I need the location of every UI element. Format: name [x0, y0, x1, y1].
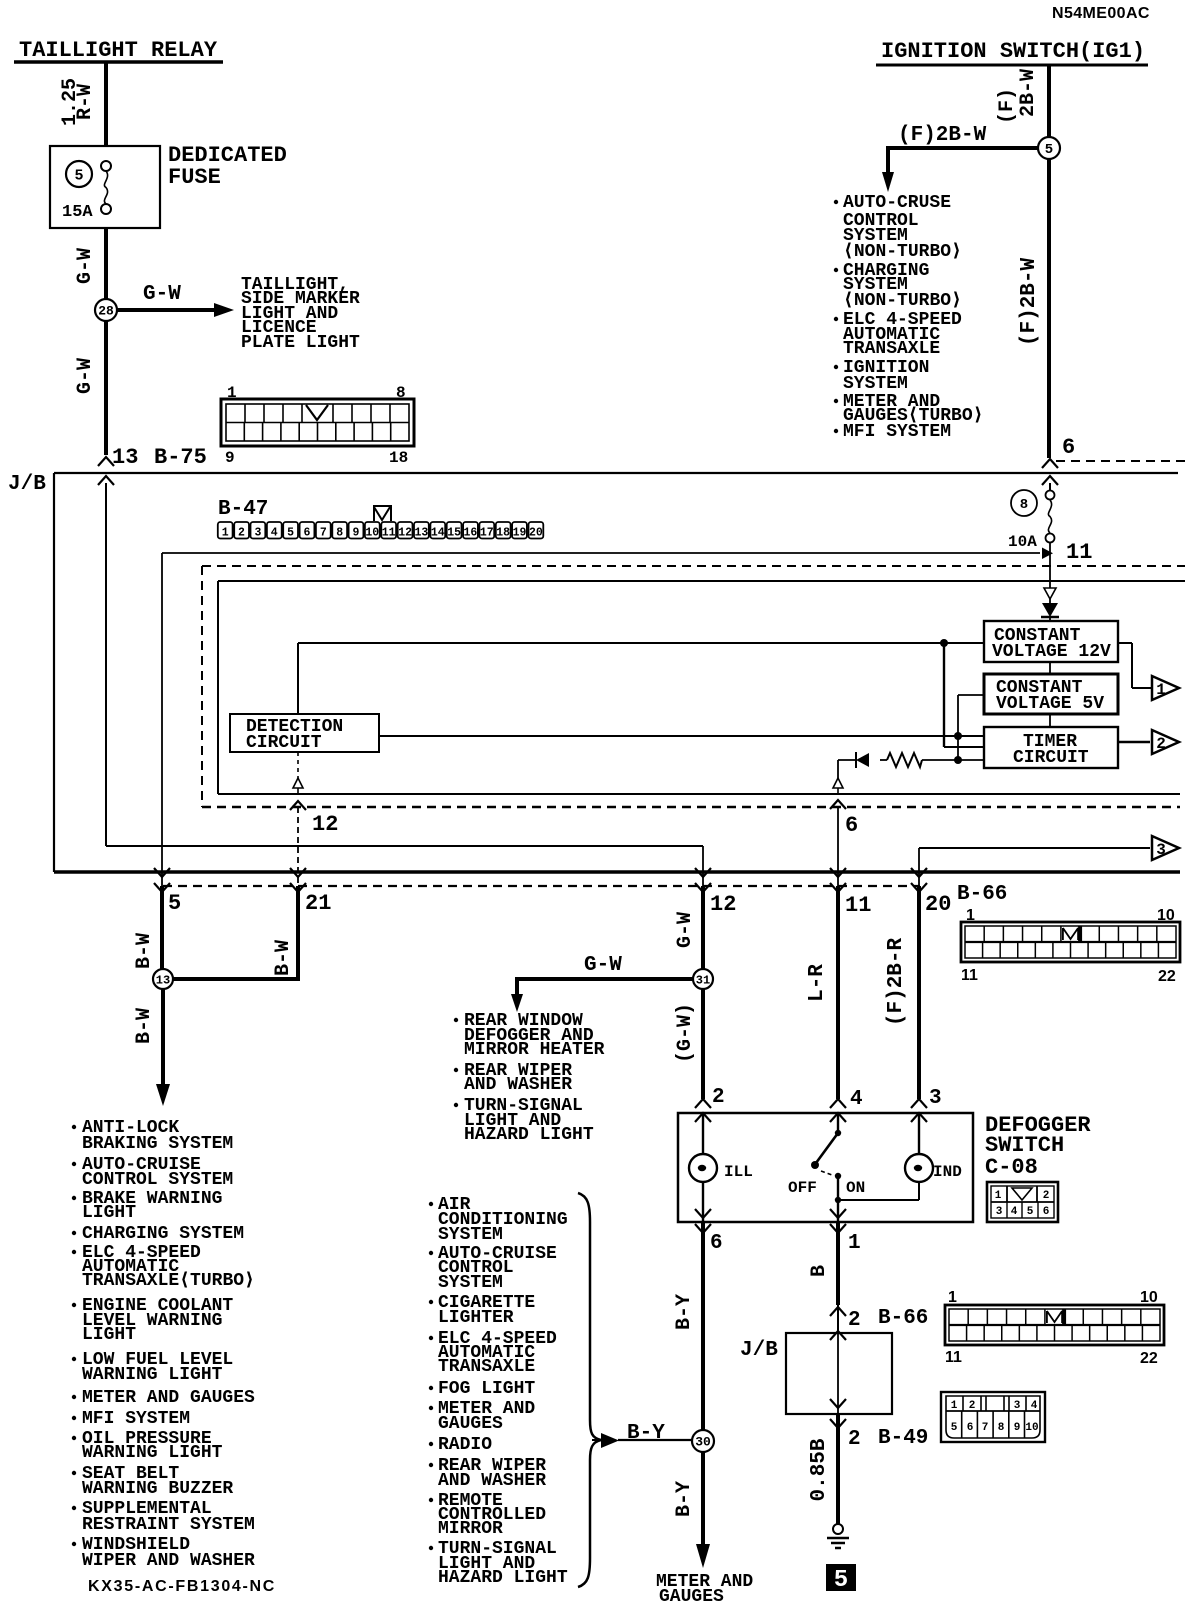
svg-text:12: 12: [312, 812, 338, 837]
svg-text:11: 11: [1066, 540, 1092, 565]
svg-text:15A: 15A: [62, 203, 93, 222]
svg-text:2: 2: [1043, 1190, 1050, 1202]
svg-text:G-W: G-W: [674, 912, 697, 948]
label 12 exit: [710, 892, 736, 917]
svg-text:CHARGING SYSTEM: CHARGING SYSTEM: [82, 1224, 244, 1244]
wire W2 into timer unit: [1049, 566, 1051, 588]
node 30: [692, 1430, 714, 1452]
node 28: [95, 299, 117, 321]
wire node30 down arrow: [696, 1452, 710, 1568]
label pin 4: [850, 1088, 863, 1111]
node 31: [693, 969, 713, 989]
label DEFOGGER SWITCH C-08: [985, 1113, 1091, 1180]
entry triangle marker: [1044, 588, 1056, 599]
exit triangle marker x298: [293, 778, 303, 788]
svg-text:METER AND GAUGES: METER AND GAUGES: [82, 1388, 255, 1408]
svg-text:11: 11: [382, 527, 396, 540]
svg-text:B-Y: B-Y: [627, 1422, 665, 1445]
svg-text:9: 9: [225, 449, 235, 467]
connector B-47 key symbol: [374, 506, 391, 521]
detection exit 12 drop: [297, 752, 299, 779]
svg-text:11: 11: [945, 1349, 962, 1366]
svg-text:TRANSAXLE: TRANSAXLE: [438, 1357, 535, 1377]
svg-text:B-66: B-66: [957, 883, 1007, 906]
svg-text:TRANSAXLE⟨TURBO⟩: TRANSAXLE⟨TURBO⟩: [82, 1271, 255, 1291]
arrow brace to node30: [592, 1433, 692, 1448]
dedicated fuse F5 box: [50, 143, 287, 228]
output arrow 3: [919, 836, 1179, 860]
connector B-47 label: [218, 498, 268, 521]
fuse 15A element: [62, 161, 111, 222]
svg-text:KX35-AC-FB1304-NC: KX35-AC-FB1304-NC: [88, 1578, 276, 1595]
label B: [808, 1265, 831, 1277]
svg-text:4: 4: [271, 527, 278, 540]
taillight load list: [241, 275, 360, 353]
svg-text:6: 6: [845, 813, 858, 838]
resistor R1: [887, 753, 984, 767]
connector B-66 upper grid: [961, 907, 1180, 985]
svg-text:3: 3: [254, 527, 261, 540]
svg-text:L-R: L-R: [806, 964, 829, 1002]
svg-text:VOLTAGE 12V: VOLTAGE 12V: [992, 642, 1111, 662]
svg-text:⟨NON-TURBO⟩: ⟨NON-TURBO⟩: [843, 291, 962, 311]
svg-text:GAUGES: GAUGES: [438, 1414, 503, 1434]
svg-text:2B-W: 2B-W: [1017, 69, 1040, 117]
svg-text:5: 5: [1045, 142, 1053, 158]
svg-text:CONTROL SYSTEM: CONTROL SYSTEM: [82, 1170, 233, 1190]
constant voltage 5V box: [984, 674, 1118, 714]
svg-text:17: 17: [480, 527, 494, 540]
svg-text:LIGHT: LIGHT: [82, 1325, 136, 1345]
wire W1 inside J/B to exit 12 corner: [106, 483, 703, 846]
svg-text:5: 5: [1027, 1206, 1034, 1218]
svg-text:9: 9: [353, 527, 360, 540]
chevrons out of J/B 2: [830, 1399, 846, 1428]
defogger bottom chevrons pin1: [830, 1209, 846, 1233]
svg-text:20: 20: [529, 527, 543, 540]
svg-text:CIRCUIT: CIRCUIT: [246, 733, 322, 753]
label J/B 2: [740, 1339, 778, 1362]
svg-text:(F)2B-W: (F)2B-W: [898, 124, 987, 147]
label B-Y lower: [673, 1481, 696, 1517]
svg-text:B-W: B-W: [272, 940, 295, 976]
svg-text:28: 28: [98, 304, 114, 319]
B-W load list: [72, 1118, 255, 1571]
defogger timer dashed enclosure: [202, 566, 1185, 807]
svg-text:SYSTEM: SYSTEM: [843, 374, 908, 394]
svg-text:5: 5: [168, 891, 181, 916]
svg-text:AND WASHER: AND WASHER: [438, 1471, 546, 1491]
exit chevron at dashed boundary x298: [290, 788, 306, 810]
label B-W below node13: [133, 1008, 156, 1044]
label G-W exit12: [674, 912, 697, 948]
svg-text:22: 22: [1158, 968, 1176, 985]
svg-text:SYSTEM: SYSTEM: [438, 1225, 503, 1245]
svg-text:MFI SYSTEM: MFI SYSTEM: [82, 1409, 190, 1429]
chevrons into J/B 2: [830, 1305, 846, 1340]
svg-text:ON: ON: [846, 1179, 865, 1197]
exit wire 11 vertical: [830, 807, 846, 1099]
svg-text:WARNING LIGHT: WARNING LIGHT: [82, 1365, 223, 1385]
svg-text:BRAKING SYSTEM: BRAKING SYSTEM: [82, 1134, 233, 1154]
svg-text:1: 1: [966, 907, 975, 924]
doc code N54ME00AC: [1052, 5, 1150, 22]
svg-text:B-49: B-49: [878, 1427, 928, 1450]
svg-text:2: 2: [238, 527, 245, 540]
svg-text:19: 19: [513, 527, 527, 540]
svg-text:B-Y: B-Y: [673, 1294, 696, 1330]
svg-text:ILL: ILL: [724, 1163, 753, 1181]
svg-text:8: 8: [336, 527, 343, 540]
svg-text:13: 13: [414, 527, 428, 540]
svg-text:6: 6: [967, 1422, 974, 1434]
label 12: [312, 812, 338, 837]
branch arrow G-W to taillight loads: [117, 283, 234, 317]
svg-text:10: 10: [1157, 907, 1175, 924]
label METER AND GAUGES: [656, 1572, 753, 1607]
svg-text:HAZARD LIGHT: HAZARD LIGHT: [464, 1125, 594, 1145]
wire JB2 to ground: [836, 1414, 840, 1524]
defogger switch chevrons pin3: [911, 1099, 927, 1122]
lamp IND: [905, 1113, 962, 1182]
svg-text:B-W: B-W: [133, 933, 156, 969]
label pin 1: [848, 1232, 861, 1255]
svg-text:30: 30: [695, 1435, 711, 1450]
svg-text:11: 11: [845, 893, 871, 918]
label 2 B-49: [848, 1427, 928, 1451]
svg-text:IGNITION SWITCH(IG1): IGNITION SWITCH(IG1): [881, 39, 1145, 64]
svg-text:TAILLIGHT RELAY: TAILLIGHT RELAY: [19, 38, 218, 63]
label 6: [845, 813, 858, 838]
junction dot 5V net on bus: [954, 732, 962, 740]
exit wire 5 vertical: [154, 553, 170, 969]
svg-text:18: 18: [389, 449, 408, 467]
svg-text:N54ME00AC: N54ME00AC: [1052, 5, 1150, 22]
svg-text:0.85B: 0.85B: [808, 1438, 831, 1501]
svg-text:3: 3: [996, 1206, 1003, 1218]
svg-text:3: 3: [1156, 841, 1166, 859]
svg-text:G-W: G-W: [584, 954, 622, 977]
detection output bus to timer: [379, 735, 984, 737]
node 5: [1038, 137, 1060, 159]
svg-text:6: 6: [303, 527, 310, 540]
svg-text:6: 6: [1062, 435, 1075, 460]
svg-text:6: 6: [1043, 1206, 1050, 1218]
svg-text:TRANSAXLE: TRANSAXLE: [843, 339, 940, 359]
wire pin6 to meter: [701, 1222, 705, 1430]
svg-text:1: 1: [848, 1232, 861, 1255]
svg-text:7: 7: [320, 527, 327, 540]
wire pin1 to JB2: [836, 1222, 840, 1305]
fuse circle 8: [1011, 490, 1037, 516]
svg-text:20: 20: [925, 892, 951, 917]
label B-Y horizontal: [627, 1422, 665, 1445]
label 11 exit: [845, 893, 871, 918]
svg-text:(G-W): (G-W): [674, 1003, 697, 1063]
wire to ABS loads: [156, 989, 170, 1106]
detection circuit box: [230, 714, 379, 753]
diode D2: [838, 752, 887, 768]
ground ref box 5: [826, 1564, 856, 1594]
svg-text:5: 5: [951, 1422, 958, 1434]
timer circuit box: [984, 727, 1118, 768]
svg-text:PLATE LIGHT: PLATE LIGHT: [241, 333, 360, 353]
svg-text:8: 8: [396, 384, 406, 402]
ignition load list: [834, 193, 984, 442]
dashed boundary top right: [1056, 460, 1190, 462]
detection top bus to 12V box: [298, 643, 984, 714]
svg-text:8: 8: [1020, 497, 1028, 513]
svg-text:6: 6: [710, 1232, 723, 1255]
svg-text:⟨NON-TURBO⟩: ⟨NON-TURBO⟩: [843, 242, 962, 262]
label 20 exit: [925, 892, 951, 917]
svg-text:15: 15: [447, 527, 461, 540]
wire W1 below fuse: [104, 228, 108, 455]
label G-W lower: [74, 358, 97, 394]
exit triangle marker x838: [833, 778, 843, 788]
svg-text:5: 5: [834, 1567, 848, 1594]
title IGNITION SWITCH(IG1): [876, 39, 1148, 65]
svg-text:13: 13: [112, 445, 138, 470]
label (F) 2B-W rotated pair: [996, 69, 1040, 124]
svg-text:13: 13: [156, 973, 170, 987]
svg-text:WIPER AND WASHER: WIPER AND WASHER: [82, 1551, 255, 1571]
svg-text:16: 16: [463, 527, 477, 540]
fuse circle 5: [66, 161, 92, 187]
internal bus from B-47 to fuse 8: [162, 548, 1053, 560]
svg-text:5: 5: [287, 527, 294, 540]
svg-text:G-W: G-W: [143, 283, 181, 306]
svg-text:12: 12: [710, 892, 736, 917]
diode D1: [1041, 599, 1059, 621]
svg-text:MIRROR HEATER: MIRROR HEATER: [464, 1040, 605, 1060]
wire node31 to defogger pin2: [701, 989, 705, 1099]
svg-text:11: 11: [961, 967, 978, 984]
svg-text:22: 22: [1140, 1350, 1158, 1367]
defogger switch chevrons pin4: [830, 1099, 846, 1122]
svg-text:WARNING BUZZER: WARNING BUZZER: [82, 1479, 233, 1499]
svg-text:B: B: [808, 1265, 831, 1277]
label 0.85B: [808, 1438, 831, 1501]
connector B-66 upper label: [957, 883, 1007, 906]
label 5: [168, 891, 181, 916]
label 2 B-66: [848, 1307, 928, 1332]
wire W1 taillight feed upper segment: [104, 63, 108, 147]
link 5V to timer: [1049, 714, 1051, 727]
label 1.25 R-W: [59, 78, 97, 126]
svg-text:FUSE: FUSE: [168, 165, 221, 190]
link 12V to 5V: [1049, 662, 1051, 674]
connector B-47 pin strip: [218, 522, 544, 540]
defogger bottom chevrons pin6: [695, 1209, 711, 1233]
output arrow 2: [1118, 730, 1179, 754]
drawing code KX35-AC-FB1304-NC: [88, 1578, 276, 1595]
svg-text:8: 8: [998, 1422, 1005, 1434]
connector chevrons W2 into J/B: [1042, 459, 1058, 485]
svg-text:G-W: G-W: [74, 248, 97, 284]
label B-W exit5: [133, 933, 156, 969]
exit wire 21 vertical: [173, 807, 306, 979]
junction block 2 box: [786, 1333, 892, 1414]
svg-text:4: 4: [1011, 1206, 1018, 1218]
switch output net: [835, 1176, 919, 1222]
junction dot 5V net resistor line: [954, 756, 962, 764]
label 21: [305, 891, 331, 916]
svg-text:1: 1: [222, 527, 229, 540]
svg-text:B-W: B-W: [133, 1008, 156, 1044]
connector C-08 icon: [987, 1182, 1058, 1222]
label (F)2B-W horizontal: [898, 124, 987, 147]
svg-text:FOG LIGHT: FOG LIGHT: [438, 1379, 535, 1399]
label (F)2B-W rotated mid: [1018, 257, 1041, 346]
label (F)2B-R: [885, 937, 908, 1026]
node 13: [153, 969, 173, 989]
svg-text:1: 1: [1156, 681, 1166, 699]
svg-text:4: 4: [850, 1088, 863, 1111]
svg-text:RADIO: RADIO: [438, 1435, 492, 1455]
svg-text:IND: IND: [933, 1163, 962, 1181]
exit chevron at dashed boundary x838: [830, 788, 846, 809]
svg-text:(F)2B-R: (F)2B-R: [885, 937, 908, 1026]
label ON: [846, 1179, 865, 1197]
wire 12V bus down to timer: [944, 643, 984, 747]
svg-text:12: 12: [398, 527, 412, 540]
svg-text:3: 3: [929, 1087, 942, 1110]
svg-text:5: 5: [74, 167, 83, 184]
svg-text:1: 1: [951, 1400, 958, 1412]
svg-text:B-47: B-47: [218, 498, 268, 521]
svg-text:21: 21: [305, 891, 331, 916]
svg-text:7: 7: [982, 1422, 989, 1434]
junction dot bus/timer feed: [940, 639, 948, 647]
svg-text:SYSTEM: SYSTEM: [438, 1273, 503, 1293]
label G-W upper: [74, 248, 97, 284]
exit wire 20 vertical: [911, 848, 927, 1099]
svg-text:2: 2: [712, 1086, 725, 1109]
branch (F)2B-W to systems: [882, 146, 1038, 192]
lamp ILL: [689, 1113, 753, 1222]
svg-text:HAZARD LIGHT: HAZARD LIGHT: [438, 1568, 568, 1588]
5V output to timer net: [958, 695, 984, 760]
svg-text:1: 1: [948, 1289, 957, 1306]
J/B bottom dashed boundary: [163, 885, 920, 887]
svg-text:(F): (F): [996, 88, 1019, 124]
label pin 3: [929, 1087, 942, 1110]
switch arm: [811, 1113, 841, 1179]
connector B-75 pin grid: [221, 384, 414, 467]
defogger switch chevrons pin2: [695, 1099, 711, 1122]
svg-text:VOLTAGE 5V: VOLTAGE 5V: [996, 694, 1104, 714]
defogger timer inner solid box: [218, 581, 1185, 794]
connector chevrons into J/B for W1: [98, 457, 114, 485]
svg-text:RESTRAINT SYSTEM: RESTRAINT SYSTEM: [82, 1515, 255, 1535]
svg-text:4: 4: [1031, 1400, 1038, 1412]
label (G-W): [674, 1003, 697, 1063]
svg-text:2: 2: [848, 1428, 861, 1451]
svg-text:CIRCUIT: CIRCUIT: [1013, 748, 1089, 768]
branch G-W to rear defogger loads: [511, 977, 693, 1012]
wire W2 ignition feed upper: [1047, 65, 1051, 458]
svg-text:2: 2: [848, 1309, 861, 1332]
label 6 at J/B entry: [1062, 435, 1075, 460]
svg-text:OFF: OFF: [788, 1179, 817, 1197]
constant voltage 12V box: [984, 621, 1118, 662]
svg-text:G-W: G-W: [74, 358, 97, 394]
svg-text:1: 1: [227, 384, 237, 402]
accessory load list: [429, 1195, 568, 1588]
svg-text:18: 18: [496, 527, 510, 540]
label G-W branch: [584, 954, 622, 977]
svg-text:10: 10: [365, 527, 379, 540]
title TAILLIGHT RELAY: [14, 38, 223, 63]
svg-text:MIRROR: MIRROR: [438, 1519, 503, 1539]
svg-text:B-Y: B-Y: [673, 1481, 696, 1517]
svg-text:2: 2: [969, 1400, 976, 1412]
svg-text:B-75: B-75: [154, 445, 207, 470]
svg-text:LIGHTER: LIGHTER: [438, 1308, 514, 1328]
connector B-49 icon: [941, 1392, 1045, 1442]
svg-text:10: 10: [1140, 1289, 1158, 1306]
svg-text:AUTO-CRUSE: AUTO-CRUSE: [843, 193, 951, 213]
fuse 10A element: [1008, 483, 1055, 566]
svg-text:9: 9: [1014, 1422, 1021, 1434]
output arrow 1: [1118, 643, 1179, 700]
ground G1: [827, 1524, 849, 1548]
svg-text:J/B: J/B: [740, 1339, 778, 1362]
svg-text:J/B: J/B: [8, 473, 46, 496]
wire inside J/B2: [837, 1333, 839, 1414]
label pin 2: [712, 1086, 725, 1109]
defogger switch C-08 box: [678, 1113, 973, 1222]
label pin 6: [710, 1232, 723, 1255]
svg-text:R-W: R-W: [74, 84, 97, 120]
label 13 B-75: [112, 445, 207, 470]
junction block J/B outline: [54, 473, 1180, 872]
svg-text:MFI SYSTEM: MFI SYSTEM: [843, 422, 951, 442]
brace for accessory list: [578, 1193, 601, 1587]
svg-text:B-66: B-66: [878, 1307, 928, 1330]
label J/B: [8, 473, 46, 496]
svg-text:WARNING LIGHT: WARNING LIGHT: [82, 1443, 223, 1463]
svg-text:10A: 10A: [1008, 533, 1037, 551]
svg-text:C-08: C-08: [985, 1155, 1038, 1180]
label L-R: [806, 964, 829, 1002]
svg-text:10: 10: [1025, 1422, 1038, 1434]
svg-text:1: 1: [995, 1190, 1002, 1202]
svg-text:31: 31: [696, 973, 710, 987]
rear defogger load list: [454, 1011, 605, 1145]
svg-text:14: 14: [431, 527, 445, 540]
label OFF: [788, 1179, 817, 1197]
svg-text:AND WASHER: AND WASHER: [464, 1075, 572, 1095]
svg-text:LIGHT: LIGHT: [82, 1203, 136, 1223]
label B-W exit21: [272, 940, 295, 976]
svg-text:3: 3: [1014, 1400, 1021, 1412]
exit wire 12 vertical: [695, 846, 711, 969]
connector B-66 lower grid: [945, 1289, 1164, 1367]
timer output 6 drop: [837, 760, 839, 779]
svg-text:2: 2: [1156, 735, 1166, 753]
label 11 fuse output: [1066, 540, 1092, 565]
svg-text:(F)2B-W: (F)2B-W: [1018, 257, 1041, 346]
label B-Y upper: [673, 1294, 696, 1330]
svg-text:GAUGES: GAUGES: [659, 1587, 724, 1607]
